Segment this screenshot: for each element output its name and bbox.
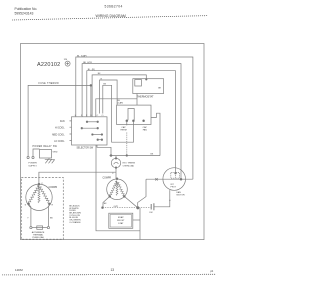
- alternate compressor windings: [28, 185, 39, 203]
- svg-text:STAT: STAT: [118, 222, 124, 225]
- switch contact row 2: [82, 127, 98, 129]
- labels cap herm / cap fan: [120, 126, 147, 132]
- header dotted rule: [12, 16, 208, 20]
- svg-text:5995243143: 5995243143: [15, 11, 34, 15]
- wire thermostat bottom to capacitor: [136, 94, 138, 106]
- svg-text:FAN: FAN: [177, 191, 182, 194]
- frost stat box: [109, 213, 133, 228]
- svg-text:ALTERNATE: ALTERNATE: [32, 231, 45, 234]
- fan motor internal protector: [171, 173, 180, 179]
- fan capacitor C2: [151, 203, 154, 210]
- wire compressor R lead diagonal: [124, 196, 138, 207]
- svg-text:S: S: [25, 204, 27, 206]
- alternate overload device: [30, 227, 32, 229]
- svg-text:Publication No.: Publication No.: [15, 7, 38, 11]
- svg-text:EVAP: EVAP: [118, 216, 124, 219]
- label ext therm overload: [123, 163, 136, 168]
- svg-text:FAN: FAN: [60, 120, 65, 123]
- node wire2 junction: [180, 178, 182, 180]
- wire 1 top: [76, 57, 193, 179]
- svg-text:326: 326: [64, 59, 68, 61]
- node bus left: [110, 155, 112, 157]
- wire alt S down: [29, 204, 31, 227]
- svg-text:COMPR: COMPR: [49, 187, 58, 189]
- svg-text:LO COOL: LO COOL: [54, 141, 65, 143]
- svg-text:FUSE THERMO: FUSE THERMO: [39, 83, 60, 85]
- thermostat inner box: [135, 80, 142, 87]
- power plug prongs: [27, 156, 29, 158]
- svg-text:12DM: 12DM: [15, 268, 23, 272]
- wire cap box right to fan line: [151, 113, 160, 155]
- svg-text:SELECTOR SW: SELECTOR SW: [77, 147, 95, 149]
- wire cap herm terminal down to bus: [126, 122, 128, 126]
- wire 2 top: [82, 64, 181, 180]
- svg-text:BK: BK: [151, 153, 154, 155]
- svg-text:THERMOSTAT: THERMOSTAT: [137, 95, 154, 98]
- svg-text:MOTOR: MOTOR: [177, 195, 186, 197]
- svg-text:CAP: CAP: [143, 126, 148, 129]
- svg-text:(CAP): (CAP): [118, 102, 124, 105]
- node R junction: [137, 207, 139, 209]
- svg-text:A220102: A220102: [37, 62, 60, 68]
- label power supply: [28, 163, 37, 168]
- svg-text:BK: BK: [50, 218, 53, 220]
- rotation symbol circle: [65, 61, 70, 66]
- node S terminal: [102, 207, 104, 209]
- svg-text:PROT: PROT: [171, 186, 177, 188]
- svg-text:OVERLOAD: OVERLOAD: [32, 236, 45, 239]
- svg-text:pb: pb: [210, 269, 213, 273]
- power wire horizontal: [28, 85, 91, 156]
- switch left ticks: [70, 121, 72, 141]
- ground symbol: [45, 158, 55, 163]
- svg-text:GRD: GRD: [53, 152, 58, 154]
- label fan motor: [177, 191, 186, 197]
- svg-text:HERM: HERM: [120, 130, 126, 132]
- svg-text:Y: Y: [27, 218, 29, 220]
- wire fan motor horizontal: [146, 178, 193, 180]
- svg-text:POWER RELAY SW: POWER RELAY SW: [33, 145, 58, 148]
- svg-text:WIRING DIAGRAM: WIRING DIAGRAM: [96, 14, 126, 18]
- wire switch C down long: [96, 145, 140, 231]
- svg-text:13: 13: [111, 268, 115, 272]
- plug housing: [40, 150, 52, 159]
- svg-text:OVERLOAD: OVERLOAD: [123, 164, 135, 167]
- wire to alternate compressor: [39, 172, 116, 184]
- svg-text:COMPR: COMPR: [103, 178, 112, 180]
- alternate compressor motor: [26, 184, 52, 210]
- svg-text:MED COOL: MED COOL: [52, 135, 65, 137]
- svg-text:FAN: FAN: [143, 129, 148, 132]
- wire 4 to thermostat: [92, 75, 146, 117]
- overload OL circle: [111, 158, 120, 167]
- svg-text:SUPPLY: SUPPLY: [28, 165, 37, 167]
- diagram frame border: [21, 44, 205, 240]
- svg-text:EXT. THERM: EXT. THERM: [123, 163, 136, 165]
- svg-text:R: R: [52, 204, 54, 206]
- wire overload tap: [115, 156, 117, 159]
- wire node down to bottom bus: [139, 208, 141, 240]
- svg-text:FROST: FROST: [117, 220, 125, 222]
- svg-text:BR: BR: [158, 88, 161, 90]
- alternate compressor dashed box: [21, 178, 63, 240]
- label alternate thermal overload: [32, 231, 45, 239]
- node power junction: [90, 85, 92, 87]
- thermostat box: [133, 79, 164, 94]
- fan motor internal label: [171, 184, 177, 189]
- svg-text:THERMAL: THERMAL: [33, 234, 44, 237]
- switch terminal labels L 1 2 3 C O: [75, 115, 104, 117]
- node wire1 dot: [175, 172, 177, 174]
- footer dotted rule: [2, 273, 216, 276]
- color legend: [69, 204, 81, 223]
- svg-text:HI COOL: HI COOL: [55, 127, 65, 129]
- fan motor B1: [163, 168, 186, 191]
- svg-text:C: C: [112, 173, 114, 175]
- wire 3 top: [87, 71, 176, 174]
- svg-text:CAP: CAP: [121, 126, 126, 129]
- wire thermostat to switch: [96, 99, 137, 117]
- wire alt R down: [48, 204, 49, 227]
- svg-text:FM: FM: [150, 212, 153, 214]
- svg-text:536B2704: 536B2704: [105, 4, 123, 8]
- compressor terminals S R: [109, 196, 111, 198]
- switch contact row 4: [98, 139, 102, 141]
- header publication number: [15, 7, 38, 15]
- svg-text:O-ORANGE: O-ORANGE: [69, 221, 81, 224]
- node thermostat top terminal: [146, 79, 148, 81]
- node fan junction X: [155, 178, 157, 180]
- wire compressor S lead BK: [103, 196, 110, 207]
- switch contact row 1: [87, 121, 98, 123]
- alternate compressor terminals: [28, 203, 30, 205]
- compressor windings: [109, 181, 117, 197]
- selector switch box: [72, 117, 108, 145]
- capacitor terminals: [126, 120, 128, 122]
- wire fan cap to fan motor: [154, 190, 171, 207]
- capacitor internal plates: [128, 109, 134, 121]
- svg-text:POWER: POWER: [28, 163, 37, 165]
- wire fan feed from junction: [138, 179, 146, 207]
- svg-text:BK: BK: [104, 203, 107, 205]
- switch contact row 3: [92, 134, 102, 136]
- switch function labels: [52, 120, 65, 143]
- wire overload to compressor C: [115, 168, 117, 179]
- wire frost stat to node: [133, 219, 140, 221]
- wire switch to bus: [97, 145, 111, 156]
